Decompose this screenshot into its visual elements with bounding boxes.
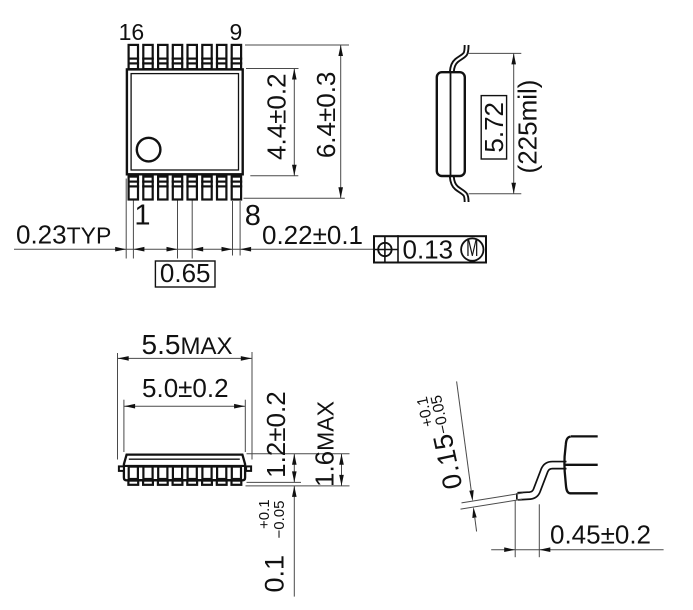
front row leads with feet [128, 467, 138, 485]
end tab left [119, 466, 124, 471]
back row leads [137, 467, 144, 480]
package body outline [127, 69, 243, 174]
dimension 0.15 +0.1/-0.05 (lead thickness) [414, 381, 523, 531]
slanted leader [457, 381, 472, 490]
svg-text:0.45±0.2: 0.45±0.2 [550, 520, 651, 550]
svg-text:5.72: 5.72 [479, 102, 509, 153]
dimension 1.6MAX [310, 401, 344, 487]
svg-text:M: M [466, 236, 478, 262]
svg-text:0.65: 0.65 [160, 258, 211, 288]
dimension 0.45±0.2 (foot length) [491, 501, 663, 558]
pin 1 index circle [137, 138, 161, 162]
svg-text:0.23TYP: 0.23TYP [16, 220, 111, 250]
svg-text:9: 9 [230, 19, 243, 45]
svg-text:5.0±0.2: 5.0±0.2 [142, 373, 229, 403]
seating plane line [246, 485, 350, 487]
boxed dimension 0.65 [155, 261, 215, 287]
bottom gull-wing lead [452, 177, 467, 203]
dimension 0.1 +0.1/-0.05 (standoff) [256, 486, 297, 597]
svg-text:1.6MAX: 1.6MAX [310, 401, 340, 487]
dimension 1.2±0.2 [261, 391, 297, 482]
centerline pin 1 [132, 163, 134, 259]
extension line lead shoulder [247, 481, 302, 483]
svg-text:6.4±0.3: 6.4±0.3 [311, 72, 341, 159]
pins 9-16 (top row) [128, 45, 140, 69]
extension line: body left edge [125, 179, 127, 259]
dimension 5.0±0.2 [124, 373, 245, 452]
tangent line lower [461, 499, 523, 509]
top view: package body with 16 pins [119, 19, 261, 259]
tangent line upper [462, 493, 524, 503]
pins 1-8 (bottom row) [128, 177, 140, 200]
lead attach line [124, 465, 245, 467]
extension line body top, to 1.2/1.6 dims [247, 453, 350, 455]
body bottom edge line [570, 492, 598, 494]
feature control frame ⌖0.13Ⓜ [374, 235, 486, 265]
end view (top right) [437, 45, 543, 202]
package body inner line [131, 74, 238, 170]
extension lines pin 8 lead width [232, 201, 234, 256]
mold parting line [450, 72, 452, 177]
body top edge line [571, 435, 598, 437]
side view (bottom left) [119, 454, 350, 486]
svg-text:1.2±0.2: 1.2±0.2 [261, 391, 291, 478]
svg-text:4.4±0.2: 4.4±0.2 [262, 73, 292, 160]
svg-text:1: 1 [134, 200, 150, 232]
svg-text:16: 16 [119, 19, 145, 45]
svg-text:0.22±0.1: 0.22±0.1 [262, 220, 363, 250]
body edge profile [564, 437, 570, 494]
dimension 4.4±0.2 (body width) [246, 69, 299, 176]
dimension 5.72 (225mil) [468, 52, 522, 54]
body mid line [564, 464, 598, 466]
centerline pin 4 [177, 163, 179, 259]
M modifier [461, 238, 483, 260]
svg-text:5.5MAX: 5.5MAX [142, 329, 233, 360]
end tab right [246, 466, 251, 471]
molded body profile [124, 455, 245, 481]
svg-text:0.13: 0.13 [403, 235, 454, 265]
dimension 5.5MAX [118, 329, 253, 460]
package body (end view) [437, 72, 465, 176]
top gull-wing lead [452, 45, 467, 72]
gull-wing lead cross-section [518, 465, 567, 496]
lead tip face [516, 493, 518, 499]
centerline pin 5 [191, 163, 193, 259]
dimension 6.4±0.3 (overall width) [244, 45, 350, 198]
svg-text:(225mil): (225mil) [513, 80, 543, 174]
lead detail (bottom right) [517, 436, 598, 499]
dimension line row under top view [14, 220, 373, 289]
body top inner line [129, 458, 240, 460]
svg-text:8: 8 [245, 200, 261, 232]
position symbol [378, 243, 391, 256]
